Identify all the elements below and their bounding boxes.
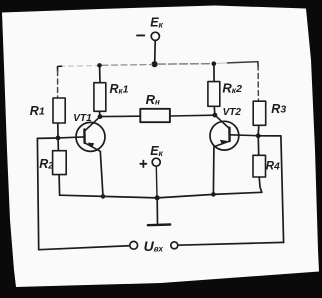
wire top-left corner hook bbox=[58, 66, 62, 71]
terminal Uvx left (circle) bbox=[130, 241, 138, 249]
wire Rn to node C bbox=[170, 114, 215, 117]
wire base node to R2 bbox=[57, 140, 59, 150]
wire node B to Rn bbox=[100, 115, 140, 117]
junction dot ground node bbox=[155, 195, 160, 200]
plus sign of Ek supply bbox=[140, 161, 146, 168]
svg-text:R1: R1 bbox=[30, 104, 45, 118]
ground bbox=[156, 198, 158, 225]
wire Ek top to rail bbox=[154, 41, 157, 64]
wire left outer vertical bbox=[37, 138, 38, 249]
terminal Ek top (circle) bbox=[151, 32, 159, 40]
wire VT1 emitter down bbox=[100, 151, 103, 196]
wire dashed right branch down to R3 bbox=[257, 65, 259, 101]
junction dot VT2 emitter on rail bbox=[211, 192, 216, 197]
resistor Rk2 bbox=[213, 65, 215, 82]
wire Ek mid to rail bbox=[155, 166, 158, 197]
terminal Uvx right (circle) bbox=[171, 242, 178, 249]
wire bottom-left to Uvx terminal bbox=[39, 246, 130, 250]
resistor R4 bbox=[253, 155, 266, 177]
junction dot Rk2 top rail bbox=[212, 61, 217, 66]
resistor Rn (load, horizontal) bbox=[140, 109, 170, 122]
wire top rail segment C (faded dashes) bbox=[157, 63, 211, 65]
minus sign of Ek supply bbox=[137, 34, 144, 36]
transistor VT1 bbox=[73, 113, 92, 124]
node Ek top label bbox=[150, 15, 163, 29]
node D (VT2 base node) bbox=[256, 133, 261, 138]
node C (VT2 collector node) bbox=[213, 113, 218, 118]
wire VT2 base node to right bbox=[258, 135, 281, 137]
wire top rail segment B (faded dashes) bbox=[102, 64, 152, 67]
resistor R2 bbox=[53, 151, 67, 175]
wire bottom rail bbox=[60, 192, 262, 198]
wire VT2 base to node D bbox=[230, 134, 258, 137]
wire dashed left branch down to R1 bbox=[57, 71, 59, 98]
wire node D to R4 bbox=[257, 138, 259, 155]
resistor Rk1 bbox=[99, 67, 101, 83]
label Uvx bbox=[144, 238, 164, 254]
wire top-right corner hook bbox=[257, 62, 259, 67]
wire R1 bottom to base node bbox=[57, 123, 59, 136]
terminal Ek mid (circle) bbox=[152, 158, 160, 166]
node Ek mid label bbox=[150, 144, 163, 158]
svg-text:R3: R3 bbox=[271, 102, 286, 116]
wire top rail segment E bbox=[228, 62, 258, 63]
resistor R3 bbox=[253, 101, 266, 125]
wire base node left bbox=[37, 137, 58, 139]
svg-text:R4: R4 bbox=[266, 161, 280, 173]
wire R4 bottom to rail bbox=[259, 177, 262, 192]
junction dot Ek top rail bbox=[152, 61, 158, 67]
wire VT2 emitter down bbox=[212, 147, 215, 195]
wire base node to VT1 base bbox=[58, 137, 84, 138]
wire R3 bottom to node D bbox=[257, 125, 260, 133]
junction dot Rk1 top rail bbox=[97, 63, 102, 68]
resistor R1 bbox=[53, 98, 65, 123]
wire Rk1 bottom to node bbox=[98, 111, 101, 114]
wire Uvx right to outer right bbox=[178, 242, 284, 245]
node A (VT1 base node) bbox=[56, 136, 61, 141]
wire top rail segment A (faint) bbox=[60, 65, 98, 68]
node B (VT1 collector node) bbox=[98, 114, 103, 119]
wire right outer vertical bbox=[281, 136, 284, 242]
junction dot VT1 emitter on rail bbox=[101, 194, 106, 199]
wire Rk2 bottom to node C bbox=[213, 106, 216, 114]
wire R2 bottom to bottom rail bbox=[58, 175, 61, 196]
wire top rail segment D (very faint) bbox=[216, 62, 228, 65]
svg-text:VT2: VT2 bbox=[223, 107, 242, 118]
transistor VT2 bbox=[223, 107, 242, 118]
